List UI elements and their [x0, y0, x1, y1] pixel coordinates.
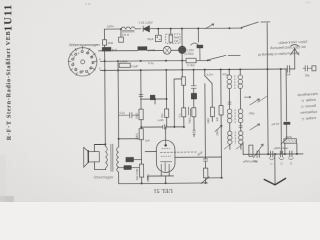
- capacitor C6 on H6: [163, 124, 168, 129]
- svg-text:Röhrenspannungen: Röhrenspannungen: [69, 43, 100, 47]
- tuning capacitor section: [248, 65, 316, 160]
- capacitor C7: [188, 107, 190, 117]
- arrow on H1 right: [205, 24, 214, 29]
- wire H8: [119, 138, 139, 140]
- wire vertical x166: [165, 70, 167, 140]
- wire vertical x267.7: [267, 23, 268, 154]
- svg-text:50µF: 50µF: [147, 37, 154, 41]
- scan smudge bottom left: [0, 196, 14, 202]
- choke L1 on H1: [121, 27, 135, 29]
- tuning arrow IF3 left: [215, 125, 223, 132]
- output transformer T1: [106, 144, 119, 172]
- dark box C11: [126, 157, 134, 161]
- dark box C8: [150, 95, 155, 100]
- wire vertical x155 stub: [154, 99, 156, 104]
- svg-text:30p: 30p: [253, 159, 258, 163]
- svg-text:4,7kΩ: 4,7kΩ: [187, 63, 195, 67]
- secondary coil: [117, 147, 119, 172]
- svg-text:3: 3: [72, 61, 74, 65]
- capacitor dark C4: [197, 45, 203, 48]
- svg-text:6,3V~: 6,3V~: [207, 72, 215, 76]
- resistor R14 x205: [203, 168, 207, 178]
- IF coil pair 3: [228, 131, 232, 135]
- switch S1 on H1: [242, 22, 270, 27]
- electrolytic C3 dark: [102, 47, 111, 51]
- svg-text:1MΩ: 1MΩ: [206, 118, 210, 124]
- svg-text:0,1µF: 0,1µF: [131, 64, 139, 68]
- switch diagonal mid: [205, 76, 212, 84]
- svg-text:1U11: 1U11: [3, 4, 14, 32]
- wire vertical x174.2: [174, 79, 182, 127]
- oscillator trimmer arrow: [257, 96, 267, 103]
- wire stub x200: [199, 48, 201, 61]
- svg-text:0,1µ: 0,1µ: [148, 61, 154, 65]
- resistor R13 x221: [219, 106, 223, 116]
- svg-text:25p: 25p: [305, 73, 310, 77]
- capacitor C20 on H3: [287, 66, 294, 73]
- svg-text:82k 0,5W: 82k 0,5W: [135, 168, 139, 180]
- wire vertical x205: [204, 70, 207, 157]
- wire vertical x212.2b: [211, 117, 213, 122]
- svg-text:20kΩ: 20kΩ: [135, 133, 139, 139]
- svg-text:100kΩ: 100kΩ: [146, 174, 150, 182]
- resistor R6 x141: [139, 109, 143, 120]
- resistor R2 in dashed box: [169, 35, 173, 42]
- wire filament row H4: [99, 49, 179, 52]
- resistor dark R3: [138, 47, 147, 50]
- svg-text:R·F·T Stern-Radio-Staßfurt VEB: R·F·T Stern-Radio-Staßfurt VEB: [6, 31, 13, 141]
- wire H9 to tube: [145, 150, 156, 152]
- wire speaker top left: [94, 143, 105, 145]
- wire stub dark box to x141: [133, 158, 141, 160]
- cap C15: [290, 151, 292, 157]
- wire tube pins down: [161, 172, 169, 176]
- wire vertical x205 bottom column: [204, 157, 206, 183]
- svg-text:25kV: 25kV: [215, 129, 219, 135]
- wire H12 to H13: [165, 176, 167, 183]
- wire x147 stub: [147, 176, 149, 180]
- wire vertical x212.2: [211, 84, 213, 108]
- speaker LS1: [84, 147, 100, 167]
- gang arcs: [269, 158, 275, 160]
- svg-text:5nF: 5nF: [145, 139, 150, 143]
- right edge component C16: [303, 65, 312, 71]
- cap C14: [280, 151, 282, 157]
- svg-text:220V~: 220V~: [107, 25, 115, 29]
- potentiometer P1: [284, 139, 297, 143]
- svg-text:UEL 51: UEL 51: [154, 187, 173, 193]
- svg-text:6: 6: [89, 67, 91, 71]
- core lines: [111, 144, 113, 172]
- svg-text:8: 8: [91, 55, 93, 59]
- svg-text:3nF: 3nF: [215, 117, 219, 122]
- wire vertical x198.8 top: [197, 28, 199, 42]
- wire H10 anode row: [175, 156, 222, 158]
- svg-text:1: 1: [78, 51, 80, 55]
- wire tuning bus H11: [243, 153, 303, 155]
- svg-text:7: 7: [91, 61, 93, 65]
- wire vertical x182.5: [182, 29, 184, 128]
- tube socket U1 bottom view: [68, 46, 98, 76]
- wire H12 under tube: [148, 175, 174, 177]
- wire stubs C19: [119, 166, 140, 168]
- IF coil pair 1: [227, 75, 232, 80]
- capacitor C5 horizontal between x118 x141: [118, 112, 139, 118]
- svg-text:5: 5: [82, 69, 84, 73]
- svg-text:2nF: 2nF: [286, 72, 291, 76]
- svg-text:2: 2: [73, 55, 75, 59]
- dashed AVC line: [160, 151, 196, 153]
- wire pot legs: [285, 143, 297, 154]
- wire speaker loop: [94, 144, 105, 169]
- svg-text:µP 07: µP 07: [272, 122, 280, 126]
- resistor R5 between H2 H3: [119, 63, 130, 67]
- svg-text:Übertrager: Übertrager: [94, 175, 115, 179]
- svg-text:4: 4: [75, 67, 77, 71]
- primary coil: [106, 146, 108, 168]
- switch S2 on H2: [208, 55, 241, 60]
- svg-text:– 4 –: – 4 –: [304, 0, 311, 4]
- resistor R8 x141 bottom: [139, 164, 143, 177]
- svg-text:10kΩ: 10kΩ: [135, 113, 139, 119]
- svg-text:75kΩ: 75kΩ: [188, 117, 192, 123]
- trimmer arrows bottom of IF columns: [224, 144, 243, 149]
- capacitor C10 bottom x205: [203, 159, 208, 161]
- wire top bus H1: [104, 28, 241, 29]
- svg-text:4 11: 4 11: [85, 2, 91, 6]
- resistor R7 x141 lower: [139, 129, 143, 140]
- wire vertical x118: [117, 61, 120, 147]
- wire stub H14: [208, 177, 222, 179]
- wire vertical x221: [220, 70, 223, 178]
- wire vertical x193.8: [193, 70, 196, 137]
- variable cap C12: [257, 151, 259, 158]
- svg-text:µRöh µMax: µRöh µMax: [274, 146, 289, 150]
- svg-text:Y 25 1,25V: Y 25 1,25V: [138, 20, 152, 24]
- svg-text:≈50Ω: ≈50Ω: [285, 135, 293, 139]
- wire vertical x122 stub: [120, 29, 122, 37]
- svg-text:100p: 100p: [249, 111, 256, 115]
- capacitor C21 on x193.8: [191, 86, 196, 89]
- svg-text:1W: 1W: [174, 39, 179, 43]
- wire ground bus H3: [100, 69, 286, 70]
- capacitor C23 on x141 above H5: [139, 94, 143, 96]
- wire vertical x105: [103, 29, 106, 146]
- IF transformer coils: [214, 75, 267, 150]
- wire vertical x275 ground drop: [274, 154, 276, 184]
- output tube V2 UEL51: [156, 140, 175, 172]
- resistor R12 x212.2: [210, 107, 214, 116]
- tuning arrow IF2: [249, 99, 259, 105]
- wire vertical x158.8 electrolytic drop: [157, 29, 159, 35]
- electrolytic C2: [157, 33, 159, 36]
- wire ground return H13: [119, 182, 208, 185]
- wire vertical x229.5 IF: [228, 69, 231, 149]
- svg-text:(1kΩ): (1kΩ): [148, 48, 155, 52]
- cap C13: [271, 151, 273, 157]
- svg-text:4µF: 4µF: [112, 48, 117, 52]
- svg-text:470p: 470p: [222, 72, 229, 76]
- socket pin numbers: [72, 51, 93, 73]
- tuning arrow IF3: [250, 124, 260, 130]
- arrow IF1: [244, 96, 251, 98]
- capacitor C17 between IF1 IF2: [228, 102, 232, 104]
- capacitor C22 tiny: [193, 130, 195, 134]
- resistor R11 x193.8: [192, 108, 196, 117]
- antenna A1: [291, 45, 299, 69]
- dark box C9: [191, 93, 196, 99]
- svg-text:0,1µ: 0,1µ: [120, 111, 126, 115]
- diode D1: [143, 26, 149, 32]
- wire vertical x171 dashed-box drop: [170, 29, 172, 34]
- right margin notes: [297, 92, 318, 121]
- dark blob tube top cap: [178, 46, 185, 53]
- resistor R9 x166: [164, 109, 168, 117]
- ground chassis V: [264, 178, 285, 184]
- IF coil pair 2: [227, 109, 232, 114]
- svg-text:0,9 H: 0,9 H: [122, 33, 129, 37]
- wire vertical x240.5 IF: [239, 69, 242, 149]
- wire vertical x286.3: [285, 69, 288, 139]
- capacitor C1 under x122: [119, 37, 124, 42]
- wire vertical x242.7: [242, 142, 244, 154]
- capacitor C18 between IF2 IF3: [239, 126, 243, 128]
- svg-text:(+Θ): (+Θ): [158, 118, 164, 122]
- wire vertical x281: [280, 69, 283, 154]
- resistor R4 on H2: [186, 58, 196, 62]
- trimmer box: [249, 145, 253, 156]
- svg-text:1,2kΩ: 1,2kΩ: [120, 59, 128, 63]
- dark box C19: [124, 166, 131, 170]
- meter bar uA07: [283, 122, 290, 125]
- wire heater bus H2: [100, 59, 210, 62]
- resistor R15 x183.7 row: [182, 108, 186, 117]
- svg-text:9: 9: [86, 51, 88, 55]
- arrow through C12: [253, 144, 263, 158]
- junction dots: [120, 28, 122, 30]
- svg-text:(170Ω): (170Ω): [185, 52, 194, 56]
- wire hop arc: [191, 43, 199, 45]
- resistor R10 x183.7 upper: [182, 77, 186, 86]
- wire x118 below transformer: [118, 172, 120, 184]
- svg-text:2kΩ: 2kΩ: [108, 41, 114, 45]
- wire H6: [141, 126, 184, 128]
- potentiometer arrow bottom: [201, 177, 209, 184]
- wire vertical x141: [140, 70, 143, 183]
- dashed box around R2: [166, 34, 180, 43]
- svg-text:0,1: 0,1: [178, 113, 182, 117]
- wire H5: [140, 98, 166, 100]
- choke core dashes: [122, 30, 135, 31]
- lamp circle: [163, 46, 171, 54]
- resistor R1 on x105: [102, 40, 106, 45]
